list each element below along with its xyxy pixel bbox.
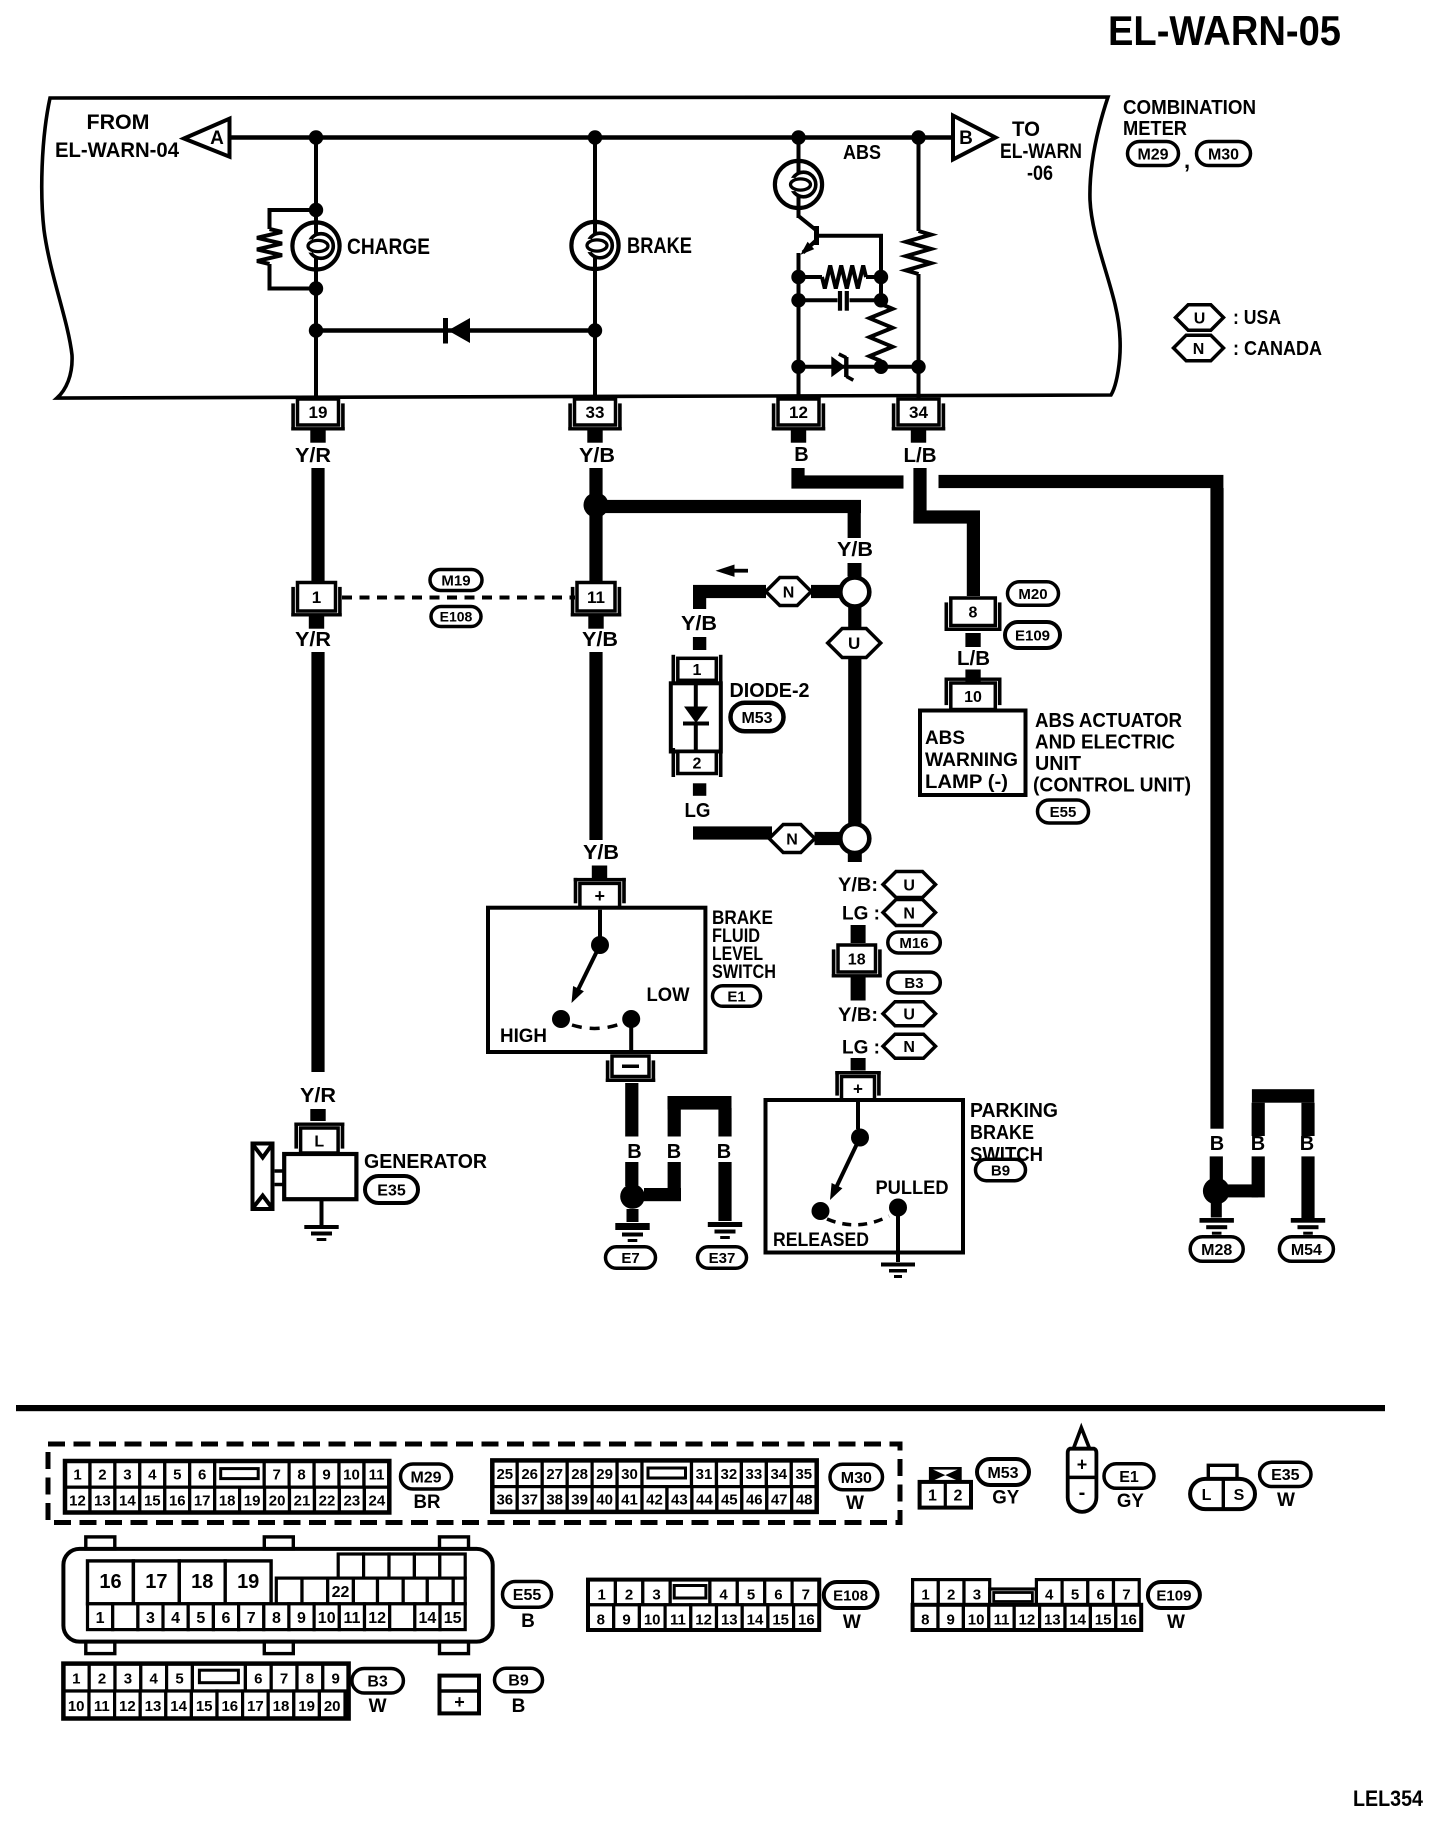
svg-text:LOW: LOW	[647, 985, 690, 1006]
svg-text:5: 5	[196, 1610, 205, 1627]
svg-text:9: 9	[297, 1610, 306, 1627]
svg-text:-06: -06	[1027, 162, 1053, 185]
svg-text:PARKING: PARKING	[970, 1100, 1058, 1122]
svg-text:12: 12	[1019, 1612, 1036, 1629]
svg-text:LEL354: LEL354	[1353, 1786, 1424, 1811]
svg-text:2: 2	[947, 1587, 955, 1604]
svg-text:14: 14	[419, 1610, 437, 1627]
svg-text:BR: BR	[414, 1492, 441, 1513]
svg-text:CHARGE: CHARGE	[347, 234, 430, 259]
svg-text:5: 5	[1071, 1587, 1079, 1604]
svg-text:B3: B3	[904, 975, 923, 992]
svg-text:HIGH: HIGH	[500, 1026, 547, 1047]
svg-text:4: 4	[1045, 1587, 1054, 1604]
svg-text:U: U	[1194, 310, 1206, 327]
svg-text:4: 4	[148, 1467, 157, 1484]
svg-text:18: 18	[191, 1571, 213, 1593]
svg-text:EL-WARN-05: EL-WARN-05	[1108, 7, 1341, 54]
svg-text:U: U	[903, 877, 915, 894]
svg-text:M53: M53	[741, 710, 772, 727]
svg-text:33: 33	[746, 1466, 763, 1483]
svg-text:Y/R: Y/R	[295, 629, 332, 651]
svg-text:18: 18	[273, 1698, 290, 1715]
svg-text:8: 8	[297, 1467, 305, 1484]
svg-text:10: 10	[318, 1610, 336, 1627]
svg-text:43: 43	[671, 1492, 688, 1509]
svg-text:47: 47	[771, 1492, 788, 1509]
svg-text:UNIT: UNIT	[1035, 753, 1081, 775]
svg-text:8: 8	[969, 605, 978, 622]
svg-text:B9: B9	[991, 1162, 1010, 1179]
svg-text:2: 2	[625, 1587, 633, 1604]
svg-text:11: 11	[670, 1612, 686, 1629]
svg-text:E108: E108	[833, 1587, 868, 1604]
svg-text:1: 1	[928, 1488, 937, 1505]
svg-text:E35: E35	[377, 1182, 406, 1199]
svg-text:28: 28	[571, 1466, 588, 1483]
svg-text:LG :: LG :	[842, 904, 880, 925]
svg-text:N: N	[1193, 341, 1205, 358]
svg-text:32: 32	[721, 1466, 738, 1483]
svg-text:29: 29	[596, 1466, 613, 1483]
svg-text:3: 3	[123, 1467, 131, 1484]
svg-text:17: 17	[194, 1492, 211, 1509]
svg-text:M16: M16	[899, 935, 928, 952]
svg-text:19: 19	[237, 1571, 259, 1593]
svg-text:L/B: L/B	[957, 648, 990, 670]
svg-text:7: 7	[280, 1671, 288, 1688]
svg-text:WARNING: WARNING	[925, 750, 1018, 771]
svg-text:46: 46	[746, 1492, 763, 1509]
svg-text:M30: M30	[1208, 146, 1239, 163]
svg-text:LAMP (-): LAMP (-)	[925, 772, 1008, 793]
svg-text:19: 19	[298, 1698, 315, 1715]
svg-text:,: ,	[1184, 148, 1190, 173]
svg-text:9: 9	[622, 1612, 630, 1629]
svg-text:1: 1	[598, 1587, 606, 1604]
svg-text:4: 4	[171, 1610, 180, 1627]
svg-text:1: 1	[921, 1587, 929, 1604]
svg-text:6: 6	[1097, 1587, 1105, 1604]
svg-text:8: 8	[597, 1612, 605, 1629]
svg-text:1: 1	[72, 1671, 80, 1688]
svg-text:25: 25	[496, 1466, 513, 1483]
svg-text:Y/B:: Y/B:	[838, 1005, 878, 1026]
svg-text:M54: M54	[1291, 1242, 1322, 1259]
svg-text:18: 18	[219, 1492, 236, 1509]
svg-text:BRAKE: BRAKE	[627, 233, 692, 258]
svg-text:COMBINATION: COMBINATION	[1123, 97, 1256, 119]
svg-text:8: 8	[921, 1612, 929, 1629]
svg-text:W: W	[846, 1493, 864, 1514]
svg-text:48: 48	[796, 1492, 813, 1509]
svg-text:20: 20	[324, 1698, 341, 1715]
svg-text:16: 16	[1120, 1612, 1137, 1629]
svg-text:E1: E1	[1119, 1469, 1139, 1486]
svg-text:LG :: LG :	[842, 1038, 880, 1059]
svg-text:U: U	[848, 634, 860, 653]
svg-text:37: 37	[521, 1492, 538, 1509]
svg-text:4: 4	[719, 1587, 728, 1604]
svg-text:13: 13	[1044, 1612, 1061, 1629]
svg-text:10: 10	[964, 689, 982, 706]
svg-text:METER: METER	[1123, 118, 1188, 140]
svg-text:8: 8	[306, 1671, 314, 1688]
svg-text:Y/R: Y/R	[300, 1085, 337, 1107]
svg-text:+: +	[454, 1692, 465, 1712]
svg-text:E37: E37	[709, 1250, 736, 1267]
svg-text:L: L	[1202, 1487, 1212, 1504]
svg-text:N: N	[786, 831, 798, 848]
svg-text:Y/B:: Y/B:	[838, 875, 878, 896]
svg-text:-: -	[1079, 1482, 1086, 1504]
svg-text:GY: GY	[1117, 1491, 1144, 1512]
svg-text:6: 6	[254, 1671, 262, 1688]
svg-text:45: 45	[721, 1492, 738, 1509]
svg-text:7: 7	[1122, 1587, 1130, 1604]
svg-text:13: 13	[94, 1492, 111, 1509]
svg-text:SWITCH: SWITCH	[712, 962, 776, 983]
svg-text:1: 1	[312, 588, 321, 607]
svg-text:16: 16	[99, 1571, 121, 1593]
svg-text:PULLED: PULLED	[876, 1178, 949, 1199]
svg-text:12: 12	[695, 1612, 712, 1629]
svg-text:34: 34	[770, 1466, 787, 1483]
svg-text:11: 11	[369, 1467, 385, 1484]
svg-text:33: 33	[586, 403, 605, 422]
svg-text:M28: M28	[1201, 1242, 1232, 1259]
svg-text:30: 30	[621, 1466, 638, 1483]
svg-text:U: U	[903, 1007, 915, 1024]
svg-text:: USA: : USA	[1233, 307, 1281, 329]
svg-text:B: B	[627, 1141, 641, 1163]
svg-text:N: N	[903, 1039, 915, 1056]
svg-text:B: B	[1251, 1133, 1265, 1155]
svg-text:E1: E1	[727, 988, 745, 1005]
svg-text:N: N	[903, 905, 915, 922]
svg-text:E108: E108	[440, 609, 473, 625]
svg-text:ABS: ABS	[843, 142, 881, 164]
svg-text:: CANADA: : CANADA	[1233, 338, 1322, 360]
svg-text:11: 11	[343, 1610, 360, 1627]
svg-text:12: 12	[789, 403, 808, 422]
svg-text:27: 27	[546, 1466, 563, 1483]
svg-text:10: 10	[343, 1467, 360, 1484]
svg-text:ABS: ABS	[925, 728, 965, 749]
svg-text:W: W	[369, 1696, 387, 1717]
svg-text:44: 44	[696, 1492, 713, 1509]
svg-text:N: N	[783, 584, 795, 601]
svg-text:B: B	[512, 1696, 526, 1717]
svg-text:E35: E35	[1271, 1467, 1300, 1484]
svg-text:Y/B: Y/B	[837, 539, 873, 561]
svg-text:M19: M19	[441, 572, 470, 589]
svg-text:E55: E55	[1050, 804, 1077, 821]
svg-text:23: 23	[344, 1492, 361, 1509]
svg-text:14: 14	[747, 1612, 764, 1629]
svg-text:19: 19	[244, 1492, 261, 1509]
svg-text:DIODE-2: DIODE-2	[730, 680, 810, 702]
svg-text:15: 15	[1095, 1612, 1112, 1629]
svg-text:16: 16	[221, 1698, 238, 1715]
svg-text:Y/B: Y/B	[681, 613, 717, 635]
svg-text:35: 35	[795, 1466, 812, 1483]
svg-text:B: B	[1300, 1133, 1314, 1155]
svg-text:M30: M30	[841, 1470, 872, 1487]
svg-text:B: B	[1210, 1133, 1224, 1155]
svg-text:1: 1	[96, 1610, 105, 1627]
svg-text:13: 13	[145, 1698, 162, 1715]
svg-text:2: 2	[98, 1467, 106, 1484]
svg-text:7: 7	[802, 1587, 810, 1604]
svg-text:11: 11	[994, 1612, 1010, 1629]
svg-text:21: 21	[294, 1492, 311, 1509]
svg-text:5: 5	[173, 1467, 181, 1484]
svg-text:18: 18	[848, 951, 866, 968]
svg-text:12: 12	[368, 1610, 386, 1627]
svg-text:FROM: FROM	[87, 111, 150, 134]
svg-text:41: 41	[621, 1492, 638, 1509]
svg-text:36: 36	[496, 1492, 513, 1509]
svg-text:11: 11	[94, 1698, 110, 1715]
svg-text:1: 1	[693, 662, 702, 679]
svg-text:TO: TO	[1012, 118, 1040, 141]
svg-text:+: +	[1077, 1455, 1088, 1475]
svg-text:2: 2	[954, 1488, 963, 1505]
svg-text:LG: LG	[685, 800, 711, 822]
svg-text:9: 9	[332, 1671, 340, 1688]
svg-text:EL-WARN-04: EL-WARN-04	[55, 139, 179, 162]
svg-text:38: 38	[546, 1492, 563, 1509]
svg-text:E55: E55	[513, 1587, 542, 1604]
svg-text:13: 13	[721, 1612, 738, 1629]
svg-text:W: W	[843, 1612, 861, 1633]
svg-text:19: 19	[309, 403, 328, 422]
svg-text:+: +	[595, 886, 606, 906]
svg-text:15: 15	[196, 1698, 213, 1715]
svg-text:E109: E109	[1015, 627, 1050, 644]
svg-text:GENERATOR: GENERATOR	[364, 1151, 488, 1173]
svg-text:17: 17	[247, 1698, 264, 1715]
svg-text:3: 3	[124, 1671, 132, 1688]
svg-text:Y/B: Y/B	[582, 629, 618, 651]
svg-text:EL-WARN: EL-WARN	[1000, 140, 1082, 163]
svg-text:34: 34	[909, 403, 928, 422]
svg-text:7: 7	[247, 1610, 256, 1627]
svg-text:10: 10	[968, 1612, 985, 1629]
svg-text:10: 10	[644, 1612, 661, 1629]
svg-text:A: A	[210, 128, 224, 149]
svg-text:31: 31	[696, 1466, 713, 1483]
svg-text:RELEASED: RELEASED	[773, 1230, 869, 1251]
svg-text:4: 4	[150, 1671, 159, 1688]
svg-text:8: 8	[272, 1610, 281, 1627]
svg-text:11: 11	[587, 588, 605, 607]
svg-text:17: 17	[145, 1571, 167, 1593]
svg-text:5: 5	[747, 1587, 755, 1604]
svg-text:E7: E7	[621, 1250, 639, 1267]
svg-text:9: 9	[322, 1467, 330, 1484]
svg-text:15: 15	[144, 1492, 161, 1509]
svg-text:B9: B9	[508, 1673, 529, 1690]
svg-text:39: 39	[571, 1492, 588, 1509]
svg-text:(CONTROL UNIT): (CONTROL UNIT)	[1033, 775, 1191, 797]
svg-text:L: L	[314, 1133, 324, 1150]
svg-text:M29: M29	[1137, 146, 1168, 163]
svg-text:Y/B: Y/B	[579, 445, 615, 467]
svg-text:2: 2	[693, 755, 702, 772]
svg-text:L/B: L/B	[904, 445, 937, 467]
svg-text:M53: M53	[987, 1465, 1018, 1482]
svg-text:40: 40	[596, 1492, 613, 1509]
svg-text:E109: E109	[1156, 1587, 1191, 1604]
svg-text:GY: GY	[992, 1488, 1019, 1509]
svg-text:AND ELECTRIC: AND ELECTRIC	[1035, 732, 1175, 754]
svg-text:Y/B: Y/B	[583, 842, 619, 864]
svg-text:20: 20	[269, 1492, 286, 1509]
svg-text:42: 42	[646, 1492, 663, 1509]
svg-text:W: W	[1167, 1612, 1185, 1633]
svg-text:15: 15	[444, 1610, 462, 1627]
svg-text:6: 6	[198, 1467, 206, 1484]
svg-text:B3: B3	[367, 1674, 388, 1691]
svg-text:B: B	[959, 128, 973, 149]
svg-text:6: 6	[222, 1610, 231, 1627]
svg-text:B: B	[521, 1611, 535, 1632]
svg-text:12: 12	[119, 1698, 136, 1715]
svg-text:+: +	[853, 1079, 863, 1098]
svg-text:6: 6	[774, 1587, 782, 1604]
svg-text:22: 22	[319, 1492, 336, 1509]
svg-text:2: 2	[98, 1671, 106, 1688]
svg-text:B: B	[667, 1141, 681, 1163]
svg-text:BRAKE: BRAKE	[970, 1122, 1034, 1144]
svg-text:B: B	[794, 444, 808, 466]
svg-text:15: 15	[772, 1612, 789, 1629]
svg-text:W: W	[1277, 1490, 1295, 1511]
svg-text:12: 12	[69, 1492, 86, 1509]
svg-text:1: 1	[73, 1467, 81, 1484]
svg-text:S: S	[1234, 1487, 1245, 1504]
svg-text:M20: M20	[1018, 586, 1047, 603]
svg-text:10: 10	[68, 1698, 85, 1715]
svg-text:14: 14	[119, 1492, 136, 1509]
svg-text:26: 26	[521, 1466, 538, 1483]
svg-text:9: 9	[947, 1612, 955, 1629]
svg-text:14: 14	[1069, 1612, 1086, 1629]
svg-text:ABS ACTUATOR: ABS ACTUATOR	[1035, 710, 1183, 732]
svg-text:22: 22	[332, 1584, 350, 1601]
svg-text:14: 14	[170, 1698, 187, 1715]
svg-text:16: 16	[798, 1612, 815, 1629]
svg-text:3: 3	[652, 1587, 660, 1604]
svg-text:5: 5	[175, 1671, 183, 1688]
svg-text:Y/R: Y/R	[295, 445, 332, 467]
svg-text:3: 3	[146, 1610, 155, 1627]
svg-text:B: B	[717, 1141, 731, 1163]
svg-text:3: 3	[973, 1587, 981, 1604]
svg-text:M29: M29	[410, 1469, 441, 1486]
svg-text:24: 24	[369, 1492, 386, 1509]
svg-text:7: 7	[273, 1467, 281, 1484]
svg-text:16: 16	[169, 1492, 186, 1509]
